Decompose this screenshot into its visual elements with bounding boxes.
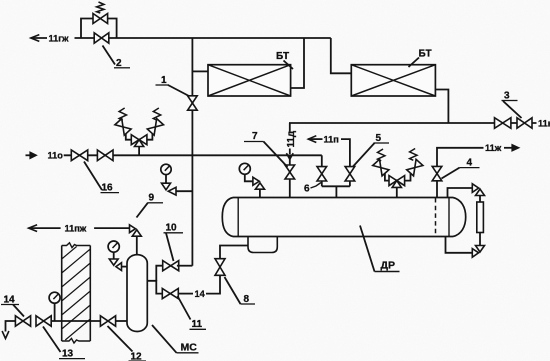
leader МС: [152, 325, 177, 353]
svg-text:11: 11: [192, 319, 203, 330]
relief valve PSV on bypass: [93, 14, 100, 24]
G3 angle valve: [109, 259, 118, 265]
svg-text:ДР: ДР: [381, 260, 395, 272]
PSV2 right elbow: [405, 173, 411, 181]
level gauge top valve: [472, 184, 478, 193]
valve 2: [94, 33, 101, 43]
G2 stem: [245, 174, 253, 181]
wire valve10 to main riser: [177, 265, 193, 267]
svg-text:11д: 11д: [286, 130, 297, 147]
G3 outlet to column: [122, 266, 128, 268]
leader to valve 5: [353, 143, 375, 167]
wire vertical main x192: [191, 38, 193, 266]
heat exchanger БТ2 shell: [351, 65, 435, 96]
wire branch to BT1 inlet: [192, 70, 208, 72]
drum internal dashed line: [435, 198, 437, 236]
leader to valve 16a: [84, 162, 102, 191]
wire 11о header: [64, 154, 322, 156]
svg-text:16: 16: [102, 183, 114, 194]
valve 10: [163, 261, 171, 271]
valve 5 bottom stem: [349, 181, 351, 186]
wire bottom line across wall: [51, 320, 100, 322]
valve 11: [162, 289, 170, 299]
leader to label 2: [103, 46, 116, 65]
svg-text:11ж: 11ж: [485, 143, 502, 153]
wire bottom outlet elbow: [6, 321, 16, 332]
leader to valve 13a: [13, 305, 24, 317]
svg-text:13: 13: [62, 349, 74, 360]
arrow down bottom left: [2, 331, 9, 339]
wire BT2 outlet drop: [435, 90, 448, 124]
wire 11о elbow into valve 6: [321, 155, 323, 166]
valve 4 stem: [436, 181, 438, 198]
leader to valve 9: [137, 203, 148, 218]
svg-text:11н: 11н: [538, 119, 550, 129]
PSV2 right spring: [410, 149, 417, 161]
G2 angle valve: [253, 177, 259, 185]
PSV2 right angle valve: [407, 159, 423, 176]
PSV1 left angle valve: [115, 119, 131, 136]
leader to valve 6: [311, 183, 322, 189]
svg-text:БТ: БТ: [419, 49, 432, 60]
PSV1 three-way valve: [131, 135, 139, 145]
leader to valve 4: [442, 168, 460, 179]
svg-text:14: 14: [195, 289, 206, 299]
wire 11ж arrow: [504, 147, 512, 149]
wire 11пж arrow: [29, 225, 37, 232]
valve 4: [432, 166, 442, 173]
wire 11пж outlet: [94, 227, 129, 229]
wire 11ж outlet: [437, 148, 484, 167]
arrow down on 11д line: [286, 153, 293, 159]
leader to valve 8: [225, 277, 241, 304]
leader to valve 11: [178, 296, 191, 320]
pressure gauge G3: [108, 241, 119, 252]
svg-text:12: 12: [131, 352, 143, 361]
leader to valve 10: [166, 233, 174, 261]
svg-text:10: 10: [166, 223, 178, 234]
PSV1 right spring: [153, 108, 160, 120]
leader to valve 12: [108, 326, 133, 352]
valve 7: [285, 165, 295, 172]
leader ДР: [360, 226, 375, 272]
pressure gauge G4: [49, 292, 60, 303]
leader БТ1: [284, 61, 294, 70]
wire 14 to valve 11: [177, 293, 193, 295]
leader БТ2: [409, 58, 420, 68]
leader to valve 3b: [503, 101, 522, 118]
svg-text:11п: 11п: [324, 134, 339, 144]
svg-text:11о: 11о: [48, 151, 64, 161]
valve 13b: [36, 316, 44, 326]
wall section (hatched): [62, 243, 91, 248]
PSV1 left spring: [119, 108, 126, 120]
column МС shell: [127, 255, 147, 332]
G1 angle valve: [162, 183, 171, 190]
valve 16a: [71, 150, 79, 161]
G3 stem: [113, 252, 115, 259]
svg-text:11пж: 11пж: [65, 223, 87, 233]
PSV2 three-way valve: [389, 176, 397, 186]
G2 outlet to drum: [259, 189, 261, 197]
svg-text:7: 7: [252, 131, 258, 142]
svg-text:БТ: БТ: [276, 51, 289, 62]
wire 11п arrow: [308, 136, 316, 143]
heat exchanger БТ1 shell: [208, 65, 291, 96]
manifold wire 5-6 to drum: [322, 185, 350, 187]
pressure gauge G1: [161, 164, 171, 174]
PSV1 stem: [138, 146, 140, 156]
wire BT1 outlet riser: [291, 38, 304, 88]
wire boot drain: [220, 246, 248, 259]
valve 9 angle: [130, 225, 136, 233]
valve 12: [100, 316, 108, 326]
svg-text:4: 4: [467, 158, 473, 169]
leader to valve 7: [264, 142, 288, 168]
drum ДР top shell: [233, 197, 453, 199]
leader to valve 1: [168, 85, 189, 96]
heat exchanger БТ2 cross: [351, 65, 435, 96]
level gauge glass: [477, 202, 484, 233]
wire 11гж outlet arrow: [31, 35, 40, 42]
valve 1: [188, 96, 198, 103]
wire valve11 to column: [147, 281, 162, 294]
svg-text:9: 9: [149, 193, 155, 204]
level gauge lower stem: [479, 233, 481, 246]
pressure gauge G2: [239, 163, 250, 174]
svg-text:6: 6: [304, 183, 310, 194]
wire valve8 to 14 line: [206, 276, 220, 294]
valve 3a: [495, 118, 503, 129]
G4 stem: [54, 303, 56, 321]
PSV1 right elbow: [147, 133, 153, 140]
wire top header y=38: [75, 37, 331, 39]
level gauge bottom valve: [476, 246, 485, 253]
PSV2 left spring: [378, 149, 385, 161]
valve 6 bottom stem: [321, 181, 323, 186]
valve 8: [215, 259, 225, 267]
valve 6: [317, 167, 327, 174]
wire 11п elbow into valve 5: [341, 139, 350, 167]
valve 13a: [15, 316, 23, 326]
wire valve12 to column: [116, 320, 127, 322]
svg-text:11гж: 11гж: [49, 34, 70, 44]
wire header elbow to БТ2 inlet: [331, 38, 352, 73]
spring of relief valve: [97, 2, 104, 13]
svg-text:МС: МС: [181, 342, 198, 354]
level gauge top bracket: [448, 188, 473, 198]
valve 16b: [97, 150, 105, 161]
leader to valve 13b: [43, 327, 61, 353]
valve 5: [345, 167, 355, 174]
wire 11д drop elbow: [288, 122, 291, 124]
drum ДР bottom shell: [233, 236, 453, 238]
drum ДР left head: [222, 198, 233, 237]
valve 3b: [517, 118, 525, 128]
G1 stem: [165, 175, 167, 184]
wire valve7 stem: [289, 155, 291, 197]
wall hatching: [62, 247, 77, 260]
wire bypass loop: [81, 19, 117, 39]
drum ДР right seam: [448, 198, 450, 237]
drum boot: [248, 237, 277, 253]
wire header y=123: [289, 122, 536, 124]
PSV2 left elbow: [385, 173, 389, 181]
G1 outlet wire: [176, 190, 192, 192]
heat exchanger БТ1 cross: [208, 65, 291, 96]
wire column riser to valve 10: [156, 266, 162, 281]
PSV2 left angle valve: [373, 159, 389, 176]
wire column top stem: [136, 236, 138, 254]
wire 11о inlet arrow: [26, 154, 32, 156]
PSV1 left elbow: [126, 133, 132, 140]
drum ДР right head: [453, 198, 466, 237]
level gauge upper stem: [479, 196, 481, 203]
PSV2 stem: [396, 187, 398, 198]
level gauge bottom bracket: [446, 237, 473, 253]
drum ДР left seam: [237, 198, 239, 237]
PSV1 right angle valve: [147, 119, 163, 136]
